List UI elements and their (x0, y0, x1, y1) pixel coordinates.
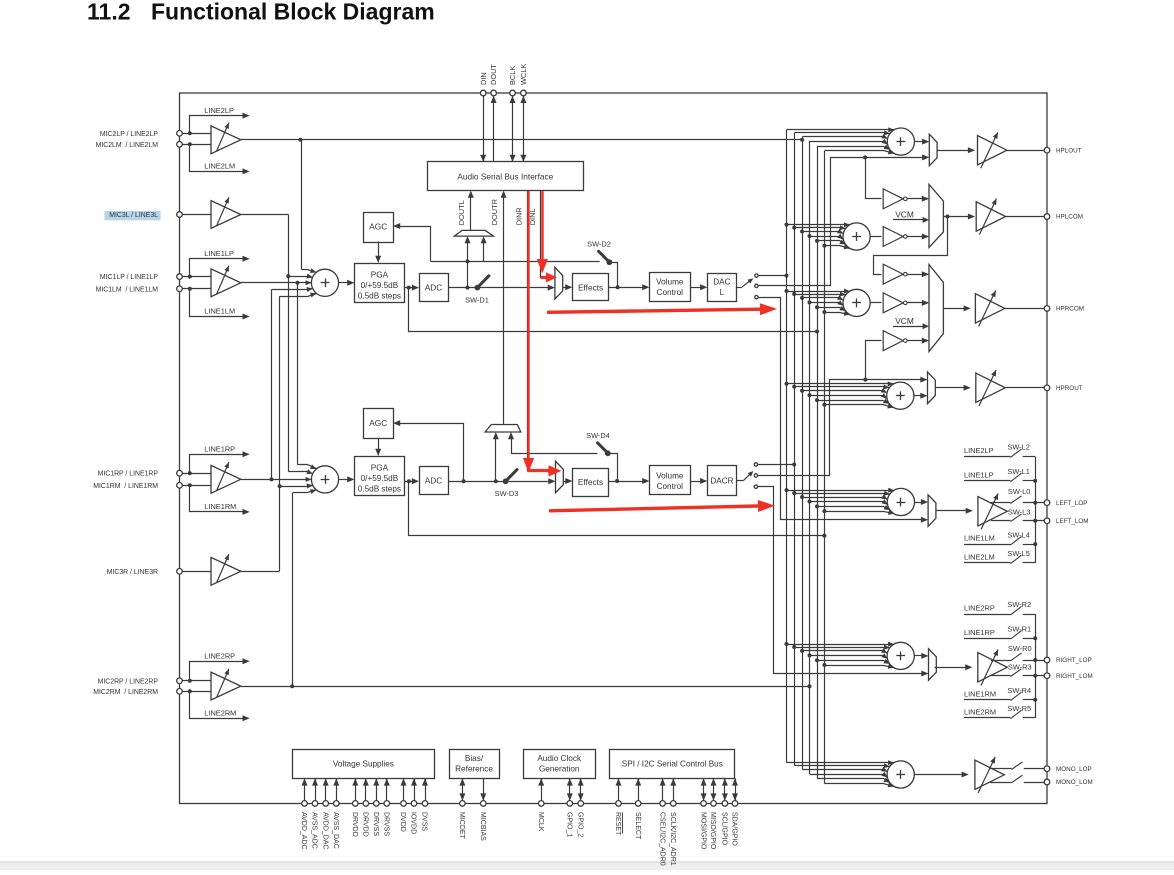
svg-text:LINE2LP: LINE2LP (204, 106, 234, 115)
svg-text:WCLK: WCLK (519, 64, 528, 85)
svg-text:IOVDD: IOVDD (410, 812, 417, 834)
svg-text:SW-R1: SW-R1 (1007, 624, 1031, 633)
svg-text:SW-R2: SW-R2 (1007, 600, 1031, 609)
svg-text:MIC3R / LINE3R: MIC3R / LINE3R (107, 569, 158, 576)
svg-text:MIC2RP / LINE2RP: MIC2RP / LINE2RP (98, 678, 159, 685)
svg-text:LINE1LP: LINE1LP (964, 471, 994, 480)
svg-text:MIC2RM / LINE2RM: MIC2RM / LINE2RM (93, 689, 158, 696)
svg-text:SW-D1: SW-D1 (465, 296, 489, 305)
svg-text:11.2: 11.2 (87, 0, 131, 25)
svg-text:GPIO_1: GPIO_1 (566, 812, 573, 837)
svg-text:DOUTL: DOUTL (457, 200, 466, 225)
svg-text:MICBIAS: MICBIAS (479, 812, 486, 841)
svg-text:DOUTR: DOUTR (490, 199, 499, 225)
svg-text:SW-L0: SW-L0 (1008, 487, 1030, 496)
svg-text:DAC: DAC (713, 277, 730, 286)
svg-text:Effects: Effects (578, 282, 603, 292)
svg-text:SW-R4: SW-R4 (1007, 686, 1031, 695)
svg-text:MIC1RM / LINE1RM: MIC1RM / LINE1RM (93, 483, 158, 490)
svg-text:DOUT: DOUT (489, 64, 498, 85)
svg-text:MONO_LOP: MONO_LOP (1056, 766, 1092, 773)
svg-text:HPROUT: HPROUT (1056, 385, 1083, 392)
svg-text:DVDD: DVDD (399, 812, 406, 832)
svg-text:0.5dB steps: 0.5dB steps (358, 292, 401, 301)
svg-text:BCLK: BCLK (508, 66, 517, 85)
svg-text:LEFT_LOP: LEFT_LOP (1056, 500, 1088, 507)
svg-text:SDA/GPIO: SDA/GPIO (731, 812, 738, 846)
svg-text:MIC1RP / LINE1RP: MIC1RP / LINE1RP (98, 471, 159, 478)
svg-text:SW-L4: SW-L4 (1007, 530, 1029, 539)
svg-text:GPIO_2: GPIO_2 (576, 812, 583, 837)
svg-text:MOSI/GPIO: MOSI/GPIO (699, 812, 706, 850)
svg-text:LINE1LP: LINE1LP (204, 249, 234, 258)
svg-text:DRVSS: DRVSS (372, 812, 379, 836)
svg-text:SW-D4: SW-D4 (586, 431, 610, 440)
svg-text:LINE1RP: LINE1RP (964, 628, 995, 637)
svg-text:CSEL/I2C_ADR0: CSEL/I2C_ADR0 (658, 812, 665, 866)
svg-text:MIC1LM / LINE1LM: MIC1LM / LINE1LM (96, 286, 159, 293)
svg-text:LINE1LM: LINE1LM (204, 307, 235, 316)
svg-text:Generation: Generation (539, 764, 580, 773)
svg-text:SCL/GPIO: SCL/GPIO (721, 812, 728, 846)
svg-text:LINE1LM: LINE1LM (964, 534, 995, 543)
svg-text:PGA: PGA (371, 270, 389, 279)
svg-text:LINE2RP: LINE2RP (964, 604, 995, 613)
svg-text:ADC: ADC (425, 282, 443, 292)
svg-text:Effects: Effects (578, 477, 603, 487)
svg-text:AVDD_DAC: AVDD_DAC (321, 812, 328, 850)
svg-text:AGC: AGC (369, 418, 387, 428)
svg-text:DRVDD: DRVDD (351, 812, 358, 837)
svg-text:SW-R0: SW-R0 (1008, 644, 1032, 653)
svg-text:AVDD_ADC: AVDD_ADC (300, 812, 307, 850)
svg-text:SW-L1: SW-L1 (1007, 467, 1029, 476)
svg-text:DIN: DIN (479, 72, 488, 85)
svg-text:LINE2LM: LINE2LM (964, 553, 995, 562)
svg-text:Functional Block Diagram: Functional Block Diagram (151, 0, 435, 25)
svg-text:MIC1LP / LINE1LP: MIC1LP / LINE1LP (100, 274, 158, 281)
svg-text:LEFT_LOM: LEFT_LOM (1056, 518, 1089, 525)
svg-text:ADC: ADC (425, 476, 443, 486)
svg-text:LINE2RP: LINE2RP (204, 652, 235, 661)
svg-text:LINE1RP: LINE1RP (204, 445, 235, 454)
svg-text:AVSS_ADC: AVSS_ADC (311, 812, 318, 849)
svg-text:SW-D2: SW-D2 (587, 240, 611, 249)
svg-text:SCLK/I2C_ADR1: SCLK/I2C_ADR1 (669, 812, 676, 866)
svg-text:Bias/: Bias/ (465, 754, 484, 763)
svg-text:LINE1RM: LINE1RM (964, 689, 996, 698)
svg-text:DACR: DACR (710, 477, 733, 486)
svg-text:DRVSS: DRVSS (383, 812, 390, 836)
svg-text:Control: Control (657, 482, 684, 491)
svg-text:Control: Control (657, 288, 684, 297)
svg-text:DINR: DINR (514, 207, 523, 225)
svg-text:MIC2LP / LINE2LP: MIC2LP / LINE2LP (100, 131, 158, 138)
svg-text:SW-L5: SW-L5 (1007, 549, 1029, 558)
svg-text:Audio Clock: Audio Clock (537, 754, 582, 763)
svg-text:0/+59.5dB: 0/+59.5dB (361, 474, 399, 483)
svg-text:Voltage Supplies: Voltage Supplies (333, 760, 394, 769)
svg-text:MONO_LOM: MONO_LOM (1056, 779, 1093, 786)
svg-text:LINE1RM: LINE1RM (204, 502, 236, 511)
svg-text:LINE2LP: LINE2LP (964, 446, 994, 455)
svg-text:Volume: Volume (656, 471, 684, 480)
svg-text:Audio Serial Bus Interface: Audio Serial Bus Interface (457, 171, 553, 181)
svg-text:RESET: RESET (614, 812, 621, 836)
svg-text:MIC2LM / LINE2LM: MIC2LM / LINE2LM (96, 142, 159, 149)
svg-text:DRVDD: DRVDD (362, 812, 369, 837)
svg-text:MIC3L / LINE3L: MIC3L / LINE3L (109, 212, 158, 219)
svg-text:SW-R5: SW-R5 (1007, 704, 1031, 713)
svg-text:MCLK: MCLK (537, 812, 544, 832)
svg-text:PGA: PGA (371, 463, 389, 472)
svg-text:DVSS: DVSS (421, 812, 428, 831)
svg-text:0/+59.5dB: 0/+59.5dB (361, 281, 399, 290)
svg-text:AVSS_DAC: AVSS_DAC (332, 812, 339, 849)
svg-text:LINE2RM: LINE2RM (964, 708, 996, 717)
svg-text:SELECT: SELECT (634, 812, 641, 840)
svg-text:RIGHT_LOP: RIGHT_LOP (1056, 657, 1092, 664)
svg-text:SW-D3: SW-D3 (495, 489, 519, 498)
svg-text:MICDET: MICDET (458, 812, 465, 840)
svg-text:L: L (720, 288, 725, 297)
svg-text:LINE2RM: LINE2RM (204, 708, 236, 717)
svg-text:LINE2LM: LINE2LM (204, 162, 235, 171)
svg-text:Reference: Reference (455, 764, 493, 773)
svg-text:HPRCOM: HPRCOM (1056, 306, 1084, 313)
svg-text:MISO/GPIO: MISO/GPIO (709, 812, 716, 850)
svg-text:HPLOUT: HPLOUT (1056, 147, 1082, 154)
svg-text:AGC: AGC (369, 222, 387, 232)
svg-text:0.5dB steps: 0.5dB steps (358, 485, 401, 494)
svg-text:VCM: VCM (895, 210, 914, 220)
svg-text:RIGHT_LOM: RIGHT_LOM (1056, 673, 1093, 680)
svg-text:Volume: Volume (656, 277, 684, 286)
svg-text:VCM: VCM (895, 316, 914, 326)
svg-text:HPLCOM: HPLCOM (1056, 214, 1083, 221)
svg-text:SW-R3: SW-R3 (1008, 663, 1032, 672)
svg-text:SW-L2: SW-L2 (1007, 443, 1029, 452)
svg-text:SW-L3: SW-L3 (1008, 508, 1030, 517)
svg-text:SPI / I2C Serial Control Bus: SPI / I2C Serial Control Bus (622, 760, 723, 769)
